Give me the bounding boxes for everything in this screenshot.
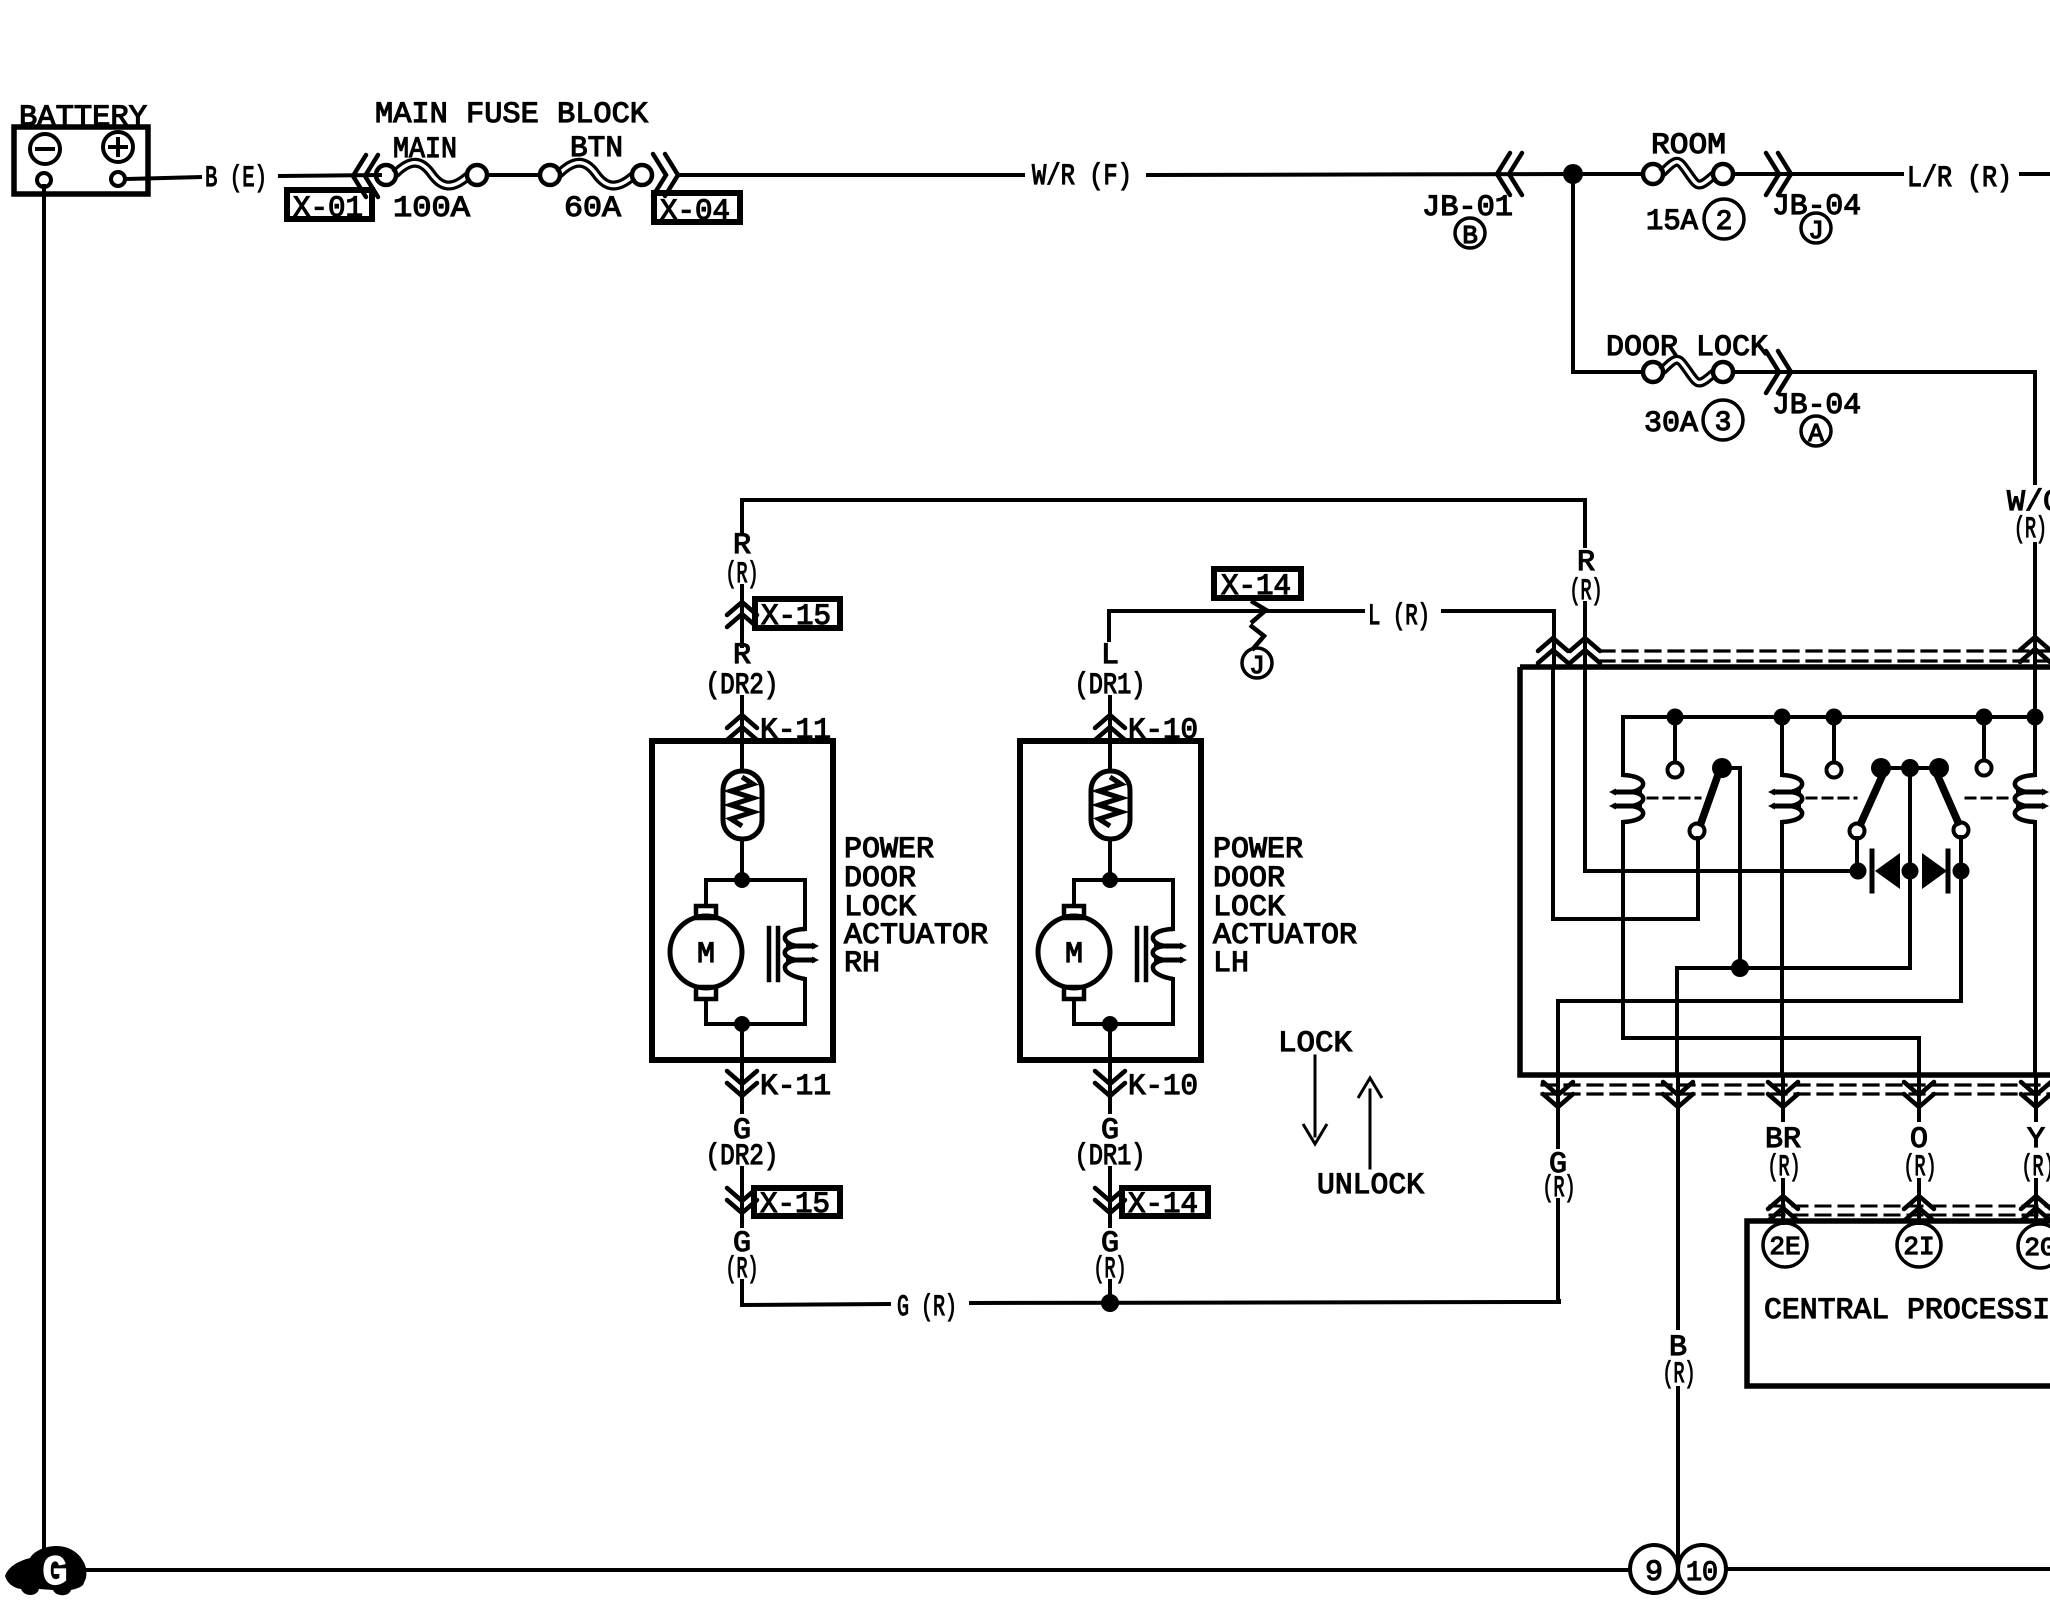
svg-text:L (R): L (R) [1368, 600, 1430, 634]
connector X-15 label bottom [754, 1188, 840, 1222]
diode D1 [1872, 851, 1900, 891]
wire pin Y(R) lower [2034, 1180, 2038, 1223]
svg-text:MAIN FUSE BLOCK: MAIN FUSE BLOCK [375, 98, 648, 132]
node diode left [1850, 863, 1867, 880]
label wire G(R) left [726, 1227, 759, 1287]
connector JB-04(J) chevron [1766, 153, 1791, 195]
label LOCK [1278, 1027, 1352, 1061]
label K-10 top [1128, 714, 1198, 748]
connector JB-04(J) pin J [1801, 213, 1831, 246]
label POWER DOOR LOCK ACTUATOR RH [844, 833, 988, 981]
wire armature center to ground row [1908, 768, 1912, 968]
svg-text:2: 2 [1716, 207, 1733, 238]
solenoid coil LH [1153, 929, 1187, 979]
svg-text:K-10: K-10 [1128, 1070, 1198, 1104]
connector JB-04(A) label [1772, 389, 1861, 423]
arrow unlock up [1358, 1078, 1382, 1168]
label wire L(DR1) [1075, 639, 1146, 703]
wire pin BR(R) [1781, 1075, 1785, 1120]
connector dashes relay unit top [1600, 651, 2050, 661]
connector X-14 chevron [1250, 601, 1266, 650]
wire into RH actuator [740, 741, 744, 771]
relay armature2 right [1929, 758, 1969, 838]
diode D2 [1922, 851, 1948, 891]
label wire BR(R) [1765, 1123, 1801, 1185]
dashed link coil1-armature [1648, 797, 1700, 800]
wire pin G(R) [1556, 1075, 1560, 1147]
wire pin B(R) [1676, 1075, 1680, 1328]
node LH actuator split [1102, 872, 1118, 888]
fuse MAIN 100A [376, 133, 487, 226]
node B(E) wire label [205, 162, 267, 196]
solenoid core LH [1137, 928, 1146, 980]
wire battery negative down [42, 186, 46, 1552]
connector X-01 label [287, 190, 372, 226]
label wire R(DR2) [706, 639, 779, 703]
svg-text:2G: 2G [2024, 1233, 2050, 1263]
relay coil 1 (unlock) [1609, 775, 1643, 822]
connector K-11 chevron bottom [727, 1071, 757, 1096]
wire into LH actuator [1108, 741, 1112, 771]
label wire G(R) mid [1094, 1227, 1127, 1287]
thermal protector LH [1091, 771, 1130, 839]
connector X-01 chevron [353, 155, 378, 197]
motor M LH [1038, 906, 1110, 999]
wire to DOOR LOCK fuse [1573, 370, 1642, 374]
connector chevron pin O(R) [1904, 1082, 1934, 1107]
connector JB-01 label [1422, 191, 1513, 225]
wire L drop at LH actuator [1107, 611, 1111, 640]
wire B(R) inside box [1675, 968, 1679, 1075]
svg-text:L: L [1101, 639, 1119, 673]
wire G(DR2) to X-15 [740, 1168, 744, 1226]
svg-text:G: G [42, 1549, 67, 1597]
wire G(R) mid drop [1108, 1281, 1112, 1303]
wire coil2 to BR(R) pin [1780, 822, 1784, 1075]
thermal protector RH [723, 771, 762, 839]
svg-text:X-01: X-01 [293, 192, 363, 226]
node bus contact1 [1667, 709, 1684, 726]
wire ground bus right [1726, 1567, 2050, 1571]
wire L/R(R) to right edge [2021, 172, 2050, 176]
wire pin BR(R) lower [1781, 1180, 1785, 1223]
relay contact3 fixed [1977, 761, 1992, 776]
connector JB-01 chevron [1497, 153, 1522, 195]
connector chevron pin G(R) [1543, 1082, 1573, 1107]
node LH actuator bottom [1102, 1016, 1118, 1032]
central processing unit box [1747, 1221, 2050, 1386]
svg-text:RH: RH [844, 947, 880, 981]
svg-text:9: 9 [1645, 1556, 1663, 1590]
label wire R(R) right [1570, 546, 1603, 609]
actuator LH box [1020, 741, 1201, 1060]
svg-text:3: 3 [1715, 408, 1732, 439]
svg-text:R: R [733, 639, 751, 673]
label wire G(DR1) [1075, 1114, 1146, 1174]
connector chevron pin B(R) [1663, 1082, 1693, 1107]
svg-text:60A: 60A [564, 192, 621, 226]
svg-text:UNLOCK: UNLOCK [1317, 1169, 1424, 1203]
wire L(DR1) to K-10 [1108, 697, 1112, 741]
wire LH motor to node [1074, 999, 1110, 1024]
dashed link coil2-armature [1807, 797, 1856, 800]
svg-text:2E: 2E [1769, 1232, 1800, 1262]
wire LH protector to node [1108, 839, 1112, 880]
relay armature2 left [1850, 758, 1892, 839]
relay coil 3 (one-shot) [2015, 775, 2049, 822]
wire junction to ROOM fuse [1573, 172, 1642, 176]
wire ground bus [84, 1568, 1630, 1572]
dashed link coil3-armature [1966, 797, 2011, 800]
svg-text:M: M [1065, 938, 1083, 972]
label wire R(R) left [726, 529, 759, 592]
wire RH node to motor [706, 880, 742, 906]
wire R(R) right drop [1583, 500, 1587, 546]
ground pin 10 [1678, 1545, 1726, 1593]
connector JB-01 pin B [1455, 218, 1485, 251]
svg-text:W/R (F): W/R (F) [1032, 160, 1132, 194]
arrow lock down [1303, 1056, 1327, 1144]
wire R(R) left drop [740, 500, 744, 531]
svg-text:100A: 100A [393, 192, 470, 226]
relay coil 2 (lock) [1768, 775, 1802, 822]
label wire Y(R) [2022, 1123, 2050, 1185]
svg-text:L/R (R): L/R (R) [1907, 162, 2012, 196]
wire coil2 top lead [1780, 717, 1784, 775]
actuator RH box [652, 741, 833, 1060]
connector chevron pin Y(R) [2021, 1082, 2050, 1107]
wire W/G through box top [2033, 667, 2037, 717]
wire W/R(F) label to JB-01 chevron [1148, 174, 1573, 175]
label K-11 bottom [760, 1070, 831, 1104]
connector K-11 chevron top [727, 715, 757, 740]
wire R(DR2) [740, 586, 744, 741]
connector X-14 label bottom [1122, 1188, 1208, 1222]
connector X-14 chevron bottom [1095, 1188, 1125, 1213]
wire RH protector to node [740, 839, 744, 880]
wire RH solenoid to node [742, 979, 805, 1024]
CPU pin 2E [1763, 1223, 1807, 1267]
wire ROOM fuse to JB-04(J) [1734, 172, 1795, 176]
wire MAIN fuse to BTN fuse [488, 173, 539, 177]
svg-text:X-14: X-14 [1221, 570, 1291, 604]
connector dashes relay unit bottom [1542, 1085, 2050, 1094]
label DOOR LOCK [1606, 331, 1768, 365]
svg-text:(DR2): (DR2) [706, 669, 779, 703]
svg-text:(R): (R) [2014, 513, 2047, 547]
node bus coil2 [1774, 709, 1791, 726]
wire armature2 left contact down [1855, 838, 1859, 871]
wire G(R) left drop [740, 1281, 744, 1305]
fuse ROOM number 2 [1704, 199, 1744, 239]
wire W/G(R) down to relay box [2033, 544, 2037, 667]
wire relay R feed [1585, 667, 1858, 871]
connector JB-04(A) chevron [1766, 351, 1791, 393]
connector X-15 chevron top [727, 602, 757, 627]
node bus W/G entry [2027, 709, 2044, 726]
label wire G(DR2) [706, 1114, 779, 1174]
wire LH solenoid to node [1110, 979, 1173, 1024]
svg-text:G (R): G (R) [897, 1291, 957, 1325]
label wire W/R(F) [1032, 160, 1132, 194]
svg-text:J: J [1249, 651, 1265, 681]
node bus contact2 [1826, 709, 1843, 726]
wire relay L contact [1553, 667, 1698, 919]
wire W/R(F) fuse block to JB-01 [678, 173, 1023, 177]
wire L(R) to relay drop [1443, 609, 1554, 613]
connector chevron CPU 2E [1768, 1196, 1798, 1221]
svg-text:M: M [697, 938, 715, 972]
svg-text:X-14: X-14 [1128, 1188, 1198, 1222]
wire LH node to solenoid [1110, 880, 1173, 929]
wire LH node to motor [1074, 880, 1110, 906]
svg-text:LH: LH [1213, 947, 1249, 981]
wire R(R) to relay unit [1583, 603, 1587, 667]
label CENTRAL PROCESSING UNIT [1764, 1294, 2050, 1328]
label wire L/R(R) [1907, 162, 2012, 196]
wire relay unit 12V bus [1623, 717, 2035, 775]
relay contact1 fixed [1668, 763, 1683, 778]
relay contact2 fixed [1827, 763, 1842, 778]
svg-text:MAIN: MAIN [393, 133, 457, 167]
svg-text:2I: 2I [1903, 1232, 1934, 1262]
wire G(R) bus right [971, 1301, 1559, 1303]
label wire G(R) pin [1543, 1148, 1576, 1206]
svg-text:X-15: X-15 [760, 1188, 830, 1222]
connector JB-04(J) label [1772, 190, 1861, 224]
connector K-10 chevron top [1095, 715, 1125, 740]
connector X-15 label top [755, 599, 840, 634]
wire RH motor to node [706, 999, 742, 1024]
wire coil1 to O(R) pin [1623, 822, 1919, 1075]
solenoid coil RH [785, 929, 819, 979]
battery [14, 101, 148, 194]
svg-text:10: 10 [1686, 1558, 1718, 1589]
svg-text:BATTERY: BATTERY [19, 101, 147, 135]
wire G(R) inside box [1558, 1001, 1961, 1075]
wire G(R) bus left [742, 1304, 889, 1305]
svg-text:BTN: BTN [570, 132, 623, 166]
label K-11 top [760, 714, 831, 748]
wire L(R) down to relay unit [1552, 611, 1556, 667]
connector X-14 pin J [1242, 648, 1272, 681]
svg-text:X-15: X-15 [761, 600, 831, 634]
connector X-04 chevron [653, 154, 678, 196]
wire pin O(R) lower [1917, 1180, 1921, 1223]
wire DOOR LOCK fuse to JB-04(A) [1734, 370, 1795, 374]
connector JB-04(A) pin A [1801, 416, 1831, 449]
label wire B(R) [1663, 1331, 1696, 1392]
node RH actuator bottom [734, 1016, 750, 1032]
wire coil3 to Y(R) pin [2033, 822, 2037, 1075]
wire JB-04(J) to L/R label [1791, 172, 1902, 176]
svg-text:X-04: X-04 [660, 195, 730, 229]
relay armature1 [1690, 758, 1741, 839]
wire G(DR1) to X-14 [1108, 1168, 1112, 1226]
connector X-04 label [654, 193, 740, 229]
node RH actuator split [734, 872, 750, 888]
node bus contact3 [1976, 709, 1993, 726]
wire coil3 top lead [2033, 717, 2037, 775]
connector X-15 chevron bottom [727, 1188, 757, 1213]
svg-text:K-11: K-11 [760, 1070, 831, 1104]
svg-text:15A: 15A [1646, 205, 1698, 239]
node diode center [1902, 863, 1919, 880]
connector chevron R into relay unit [1570, 638, 1600, 663]
node ground row pivot1 [1731, 959, 1749, 977]
svg-text:J: J [1808, 216, 1824, 246]
connector chevron pin BR(R) [1768, 1082, 1798, 1107]
wire armature1 pivot down [1738, 768, 1742, 968]
connector X-14 label top [1214, 569, 1301, 604]
label UNLOCK [1317, 1169, 1424, 1203]
wire battery positive to B(E) [125, 177, 200, 179]
label K-10 bottom [1128, 1070, 1198, 1104]
wire pin O(R) [1917, 1075, 1921, 1120]
svg-text:JB-04: JB-04 [1772, 389, 1861, 423]
door lock relay unit box [1520, 667, 2050, 1075]
svg-text:ROOM: ROOM [1651, 129, 1726, 163]
wire armature2 right contact down [1959, 837, 1963, 1001]
svg-text:B: B [1462, 221, 1478, 251]
connector dashes CPU [1770, 1206, 2050, 1215]
label wire G(R) bus [897, 1291, 957, 1325]
wire R(R) top link [742, 498, 1585, 502]
connector chevron CPU 2I [1904, 1196, 1934, 1221]
label wire L(R) [1368, 600, 1430, 634]
relay contact3 fixed lead [1982, 717, 1986, 760]
svg-text:30A: 30A [1644, 407, 1698, 441]
wire RH bottom out [740, 1024, 744, 1112]
relay contact1 fixed lead [1673, 717, 1677, 762]
label POWER DOOR LOCK ACTUATOR LH [1213, 833, 1357, 981]
wire pin G(R) lower [1556, 1200, 1560, 1301]
wire W/G(R) to right corner [1791, 372, 2035, 483]
fuse DOOR LOCK 30A [1643, 360, 1733, 441]
wire ground row [1677, 966, 1910, 970]
connector chevron L into relay unit [1538, 638, 1568, 663]
CPU pin 2I [1897, 1223, 1941, 1267]
label wire O(R) [1904, 1123, 1937, 1185]
connector chevron CPU 2G [2021, 1196, 2050, 1221]
fuse ROOM 15A [1643, 129, 1733, 239]
wire RH node to solenoid [742, 880, 805, 929]
solenoid core RH [769, 928, 778, 980]
node junction W/R feed [1563, 164, 1583, 184]
svg-text:A: A [1808, 419, 1824, 449]
wire B(E) to connector X-01 [280, 175, 380, 176]
connector chevron W/G into relay unit [2020, 637, 2050, 662]
label wire W/G(R) [2007, 486, 2050, 547]
label MAIN FUSE BLOCK [375, 98, 648, 132]
connector K-10 chevron bottom [1095, 1071, 1125, 1096]
relay armature pivot bar [1881, 759, 1939, 777]
node G(R) junction [1101, 1294, 1119, 1312]
ground pin 9 [1630, 1545, 1678, 1593]
svg-text:DOOR LOCK: DOOR LOCK [1606, 331, 1768, 365]
svg-text:B (E): B (E) [205, 162, 267, 196]
relay contact2 fixed lead [1832, 717, 1836, 762]
motor M RH [670, 906, 742, 999]
fuse BTN 60A [540, 132, 652, 226]
ground symbol G (car) [5, 1546, 86, 1597]
CPU pin 2G [2018, 1224, 2050, 1268]
wire pin Y(R) [2034, 1075, 2038, 1120]
wire LH bottom out [1108, 1024, 1112, 1112]
wire junction down to DOOR LOCK fuse [1571, 174, 1575, 372]
node diode right [1953, 863, 1970, 880]
wire pin B(R) lower [1676, 1388, 1680, 1563]
wire L(R) horizontal [1109, 609, 1363, 613]
svg-text:CENTRAL PROCESSIN: CENTRAL PROCESSIN [1764, 1294, 2050, 1328]
fuse DOOR LOCK number 3 [1703, 400, 1743, 440]
